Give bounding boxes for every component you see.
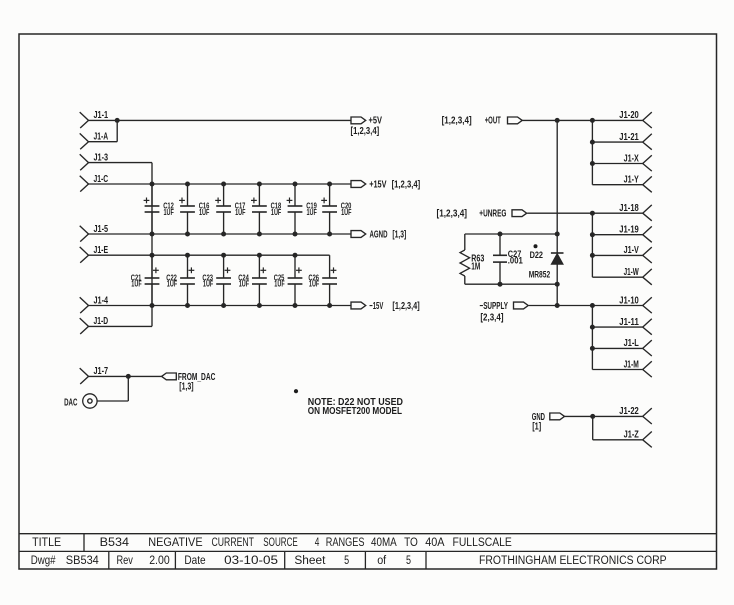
svg-text:J1-5: J1-5 [94,224,109,235]
power flag +15V [351,179,420,190]
svg-text:−SUPPLY: −SUPPLY [480,301,509,312]
wire GND [565,414,596,419]
svg-text:[1,2,3,4]: [1,2,3,4] [442,116,472,127]
svg-text:J1-3: J1-3 [94,152,109,163]
capacitor C16 [179,184,209,234]
svg-text:RANGES: RANGES [326,535,365,549]
svg-text:1UF: 1UF [239,279,249,289]
svg-text:1UF: 1UF [341,207,351,217]
connector pin J1-7 [80,366,109,384]
net flag +OUT [442,116,523,127]
svg-text:+UNREG: +UNREG [479,209,506,220]
wire main vertical +OUT to -SUPPLY [555,120,560,308]
svg-text:1UF: 1UF [131,279,141,289]
wire J1-A link [89,120,118,141]
note text [308,397,403,417]
connector pin J1-L [624,338,652,356]
svg-text:Date: Date [184,553,205,567]
svg-text:J1-A: J1-A [94,132,109,143]
svg-text:TITLE: TITLE [32,535,61,549]
svg-text:5: 5 [344,553,349,567]
connector pin J1-22 [619,406,652,424]
diode D22 [529,244,564,279]
wire J1-7 to FROM_DAC [89,374,162,379]
svg-text:J1-11: J1-11 [619,317,639,328]
capacitor C25 [274,255,303,305]
connector pin J1-A [80,132,108,150]
connector pin J1-E [80,245,109,263]
svg-text:ON MOSFET200 MODEL: ON MOSFET200 MODEL [308,406,402,417]
svg-text:SB534: SB534 [66,553,99,567]
connector pin J1-10 [619,295,652,313]
net flag +UNREG [437,209,527,220]
connector pin J1-W [624,267,652,285]
connector pin J1-C [80,174,108,192]
svg-text:1UF: 1UF [309,279,319,289]
connector pin J1-21 [619,132,652,150]
connector pin J1-Y [624,175,652,193]
svg-text:J1-E: J1-E [94,245,109,256]
title block [19,534,717,569]
svg-text:J1-X: J1-X [624,153,639,164]
power flag +5V [351,116,383,138]
capacitor C22 [166,255,195,305]
connector pin J1-X [624,153,652,171]
svg-text:J1-D: J1-D [94,316,109,327]
svg-text:[1,2,3,4]: [1,2,3,4] [437,209,468,220]
connector pin J1-19 [619,225,652,243]
svg-text:1UF: 1UF [235,207,245,217]
capacitor C19 [287,184,317,234]
capacitor C20 [321,184,351,234]
svg-text:SOURCE: SOURCE [263,535,298,549]
svg-text:+OUT: +OUT [485,116,501,127]
svg-text:J1-19: J1-19 [619,225,639,236]
svg-text:Dwg#: Dwg# [31,553,56,567]
svg-text:1UF: 1UF [167,279,177,289]
svg-text:J1-L: J1-L [624,338,639,349]
power flag AGND [351,229,406,240]
svg-text:AGND: AGND [370,229,388,240]
svg-text:J1-7: J1-7 [94,366,109,377]
svg-text:J1-1: J1-1 [94,110,109,121]
svg-text:of: of [377,553,387,567]
svg-text:40A: 40A [425,535,444,549]
svg-text:[1,2,3,4]: [1,2,3,4] [351,126,380,137]
connector pin J1-V [624,245,652,263]
wire J1-E rail [89,253,330,258]
resistor R63 [460,234,485,284]
svg-text:B534: B534 [100,535,130,549]
svg-text:J1-4: J1-4 [94,295,109,306]
svg-text:D22: D22 [530,250,543,260]
svg-text:J1-C: J1-C [94,174,109,185]
capacitor C21 [131,255,160,305]
svg-text:+15V: +15V [369,179,387,190]
connector pin J1-18 [619,203,652,221]
svg-text:MR852: MR852 [529,269,551,279]
wire J1-5 AGND rail [89,232,352,237]
svg-text:J1-Z: J1-Z [624,430,639,441]
wire J1-C +15V rail [89,182,352,187]
svg-text:J1-Y: J1-Y [624,175,639,186]
svg-text:1UF: 1UF [271,207,281,217]
svg-text:[1,2,3,4]: [1,2,3,4] [392,179,421,190]
connector pin J1-3 [80,152,109,170]
svg-text:4: 4 [315,535,320,549]
capacitor C12 [144,184,174,234]
svg-text:5: 5 [406,553,411,567]
note asterisk [294,389,298,393]
svg-text:J1-10: J1-10 [619,295,639,306]
wire +UNREG bus [590,213,643,277]
svg-text:[1,3]: [1,3] [179,382,193,393]
svg-text:FULLSCALE: FULLSCALE [453,535,512,549]
svg-text:+5V: +5V [369,116,383,127]
connector pin J1-20 [619,110,652,128]
svg-text:J1-W: J1-W [624,267,640,278]
capacitor C23 [202,255,231,305]
svg-text:J1-V: J1-V [624,245,639,256]
svg-text:−15V: −15V [369,301,383,312]
connector pin J1-1 [80,110,109,128]
wire snubber top rail [465,232,557,237]
net flag -SUPPLY [480,301,529,323]
wire GND bus [593,416,643,439]
svg-text:Sheet: Sheet [294,553,326,567]
svg-text:TO: TO [404,535,418,549]
svg-text:1UF: 1UF [203,279,213,289]
svg-text:Rev: Rev [117,553,134,567]
wire +OUT [522,118,595,123]
svg-text:J1-18: J1-18 [619,203,639,214]
capacitor C26 [308,255,337,305]
wire J1-4 -15V rail [89,303,352,308]
svg-text:1UF: 1UF [307,207,317,217]
svg-text:FROTHINGHAM ELECTRONICS CORP: FROTHINGHAM ELECTRONICS CORP [479,553,667,567]
capacitor C27 [493,234,523,284]
connector pin J1-11 [619,317,652,335]
svg-text:J1-20: J1-20 [619,110,639,121]
svg-text:[1,2,3,4]: [1,2,3,4] [392,301,419,312]
capacitor C18 [251,184,281,234]
wire J1-D link [89,325,153,327]
connector pin J1-Z [624,430,652,448]
svg-text:1UF: 1UF [199,207,209,217]
connector pin J1-D [80,316,108,334]
svg-text:[1,3]: [1,3] [392,229,406,240]
svg-text:[1]: [1] [532,422,541,433]
svg-text:03-10-05: 03-10-05 [224,553,278,567]
wire J1-1 to +5V rail [89,118,352,123]
net flag FROM_DAC [162,372,216,393]
svg-text:40MA: 40MA [371,535,397,549]
svg-text:2.00: 2.00 [149,553,170,567]
wire +UNREG [527,211,595,216]
connector pin J1-M [624,359,652,377]
power flag GND [532,412,565,433]
svg-text:J1-M: J1-M [624,359,639,370]
wire DAC to J1-7 [97,376,128,401]
svg-text:J1-21: J1-21 [619,132,639,143]
wire -SUPPLY [529,303,595,308]
power flag -15V [351,301,420,312]
svg-text:NEGATIVE: NEGATIVE [148,535,202,549]
svg-text:1UF: 1UF [164,207,174,217]
svg-text:[2,3,4]: [2,3,4] [480,312,503,323]
connector pin J1-4 [80,295,109,313]
connector pin J1-5 [80,224,109,242]
svg-text:.001: .001 [508,255,523,265]
wire +OUT bus [590,120,643,184]
wire -SUPPLY bus [590,306,643,370]
svg-text:J1-22: J1-22 [619,406,639,417]
capacitor C24 [238,255,267,305]
svg-text:1M: 1M [471,262,480,273]
svg-text:1UF: 1UF [274,279,284,289]
capacitor C17 [215,184,245,234]
svg-text:DAC: DAC [64,397,77,408]
wire snubber bottom rail [465,282,557,287]
DAC connector [64,394,97,409]
wire J1-3 feeder [89,163,153,327]
svg-text:CURRENT: CURRENT [212,535,255,549]
